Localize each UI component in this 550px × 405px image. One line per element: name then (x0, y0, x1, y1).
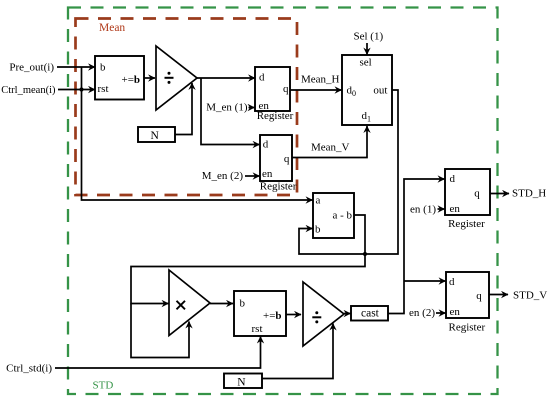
svg-text:Ctrl_mean(i): Ctrl_mean(i) (1, 85, 56, 96)
svg-text:M_en (1): M_en (1) (206, 102, 248, 114)
svg-text:en (1): en (1) (410, 204, 436, 216)
svg-text:en (2): en (2) (409, 307, 435, 319)
wire subtractor out to multiplier input (131, 215, 365, 304)
wire N2 to divider D2 (262, 324, 333, 379)
svg-text:d: d (263, 139, 269, 151)
svg-text:N: N (151, 130, 160, 142)
svg-text:q: q (476, 290, 482, 302)
multiplier U4 (169, 270, 210, 336)
svg-text:d: d (259, 71, 265, 83)
STD block boundary (68, 8, 498, 395)
svg-text:en: en (262, 168, 273, 180)
wire squaring feedback to multiplier second input (131, 304, 189, 358)
svg-text:Mean: Mean (99, 22, 125, 34)
output STD_V (489, 290, 547, 302)
svg-text:STD_V: STD_V (513, 290, 547, 302)
svg-text:+=b: +=b (122, 74, 141, 86)
svg-text:N: N (237, 377, 246, 389)
divider D1 (156, 46, 197, 110)
input Ctrl_std(i) (6, 337, 260, 375)
wire U4 out to accumulator A2 (210, 303, 233, 305)
accumulator A1 (mean accumulate) (95, 56, 144, 100)
svg-text:d: d (449, 276, 455, 288)
svg-text:+=b: +=b (263, 310, 282, 322)
wire D1 output to register R1 d (197, 77, 255, 79)
svg-text:Register: Register (448, 218, 485, 230)
svg-text:Mean_H: Mean_H (301, 74, 340, 86)
Mean block boundary (76, 19, 298, 196)
svg-text:q: q (284, 153, 290, 165)
svg-text:Sel (1): Sel (1) (354, 31, 384, 43)
svg-text:en: en (450, 203, 461, 215)
svg-text:cast: cast (361, 308, 380, 320)
svg-text:b: b (315, 224, 321, 236)
wire A1 out to divider D1 (144, 77, 155, 79)
input Ctrl_mean(i) (1, 85, 95, 96)
M_en (2) control (202, 170, 260, 182)
svg-text:Ctrl_std(i): Ctrl_std(i) (6, 363, 52, 375)
wire branch to register R4 d (404, 280, 446, 282)
svg-text:q: q (474, 188, 480, 200)
wire mux out down to subtractor b (299, 90, 398, 254)
wire R2 q to mux d1, net Mean_V (292, 126, 367, 158)
svg-text:a: a (316, 195, 321, 207)
en (1) control (410, 204, 444, 216)
en (2) control (409, 307, 445, 319)
svg-text:d: d (450, 173, 456, 185)
svg-text:Pre_out(i): Pre_out(i) (9, 62, 54, 74)
svg-text:rst: rst (98, 83, 109, 95)
wire A2 out to divider D2 (286, 314, 301, 316)
output STD_H (490, 188, 546, 200)
svg-text:Register: Register (449, 322, 486, 334)
wire D1 output down to register R2 d (201, 78, 260, 145)
svg-text:b: b (240, 298, 246, 310)
svg-text:Register: Register (257, 110, 294, 122)
svg-text:Mean_V: Mean_V (311, 142, 350, 154)
subtractor U3 (a - b) (313, 193, 354, 238)
M_en (1) control (206, 102, 254, 114)
svg-text:sel: sel (360, 57, 372, 69)
svg-text:rst: rst (252, 323, 263, 335)
wire Pre_out down to subtractor a input (82, 67, 313, 200)
STD label (93, 380, 114, 392)
mux U2 (342, 55, 392, 125)
Sel (1) input (354, 31, 384, 55)
svg-text:b: b (100, 62, 106, 74)
divider D2 (303, 282, 344, 346)
svg-text:STD: STD (93, 380, 114, 392)
svg-text:STD_H: STD_H (512, 188, 546, 200)
svg-text:en: en (450, 306, 461, 318)
wire D2 to cast (344, 313, 351, 315)
svg-text:q: q (283, 83, 289, 95)
register R2 (Mean_V) (260, 135, 297, 193)
accumulator A2 (std accumulate) (234, 291, 286, 336)
svg-text:Register: Register (260, 181, 297, 193)
Mean label (99, 22, 125, 34)
cast converter (351, 306, 388, 321)
wire R1 q to mux d0, net Mean_H (290, 74, 342, 91)
constant N1 (138, 127, 175, 142)
svg-text:out: out (373, 85, 387, 97)
wire cast out up to register R3 d (388, 179, 445, 314)
junction Pre_out drop over Ctrl_mean wire (79, 87, 83, 91)
junction subtractor-out crossing mean wire (363, 252, 367, 256)
input Pre_out(i) (9, 62, 95, 74)
svg-text:M_en (2): M_en (2) (202, 170, 244, 182)
svg-text:a - b: a - b (333, 210, 353, 222)
register R1 (Mean_H) (255, 67, 294, 122)
register R3 (STD_H) (445, 169, 490, 230)
register R4 (STD_V) (446, 272, 489, 334)
constant N2 (224, 374, 262, 389)
wire N1 to divider D1 (175, 83, 192, 135)
